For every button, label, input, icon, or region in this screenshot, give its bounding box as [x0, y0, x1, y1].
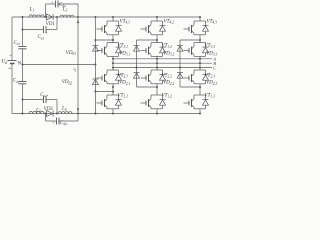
current arrow up	[77, 19, 79, 23]
transistor VT4.3	[199, 17, 201, 21]
wire leg1 output band	[112, 59, 114, 70]
node leg1 junctions	[112, 16, 114, 18]
diode VD1	[47, 14, 53, 20]
node top rail junctions	[21, 16, 23, 18]
transistor VT2.3	[199, 69, 201, 71]
wire output A	[113, 58, 212, 60]
svg-text:Cб1: Cб1	[38, 35, 45, 40]
node leg mid junctions	[112, 86, 114, 88]
svg-text:L1: L1	[29, 7, 35, 12]
wire output C	[113, 67, 212, 69]
capacitor Cd2	[19, 81, 27, 83]
transistor VT3.1	[112, 40, 114, 43]
transistor VT2.2	[156, 69, 158, 71]
svg-text:VDб2: VDб2	[62, 80, 72, 85]
wire clamp column x95	[94, 17, 96, 114]
transistor VT1.1	[112, 87, 114, 95]
svg-text:VD1: VD1	[46, 22, 56, 27]
svg-text:+: +	[46, 94, 48, 98]
node cap chain junctions	[21, 28, 23, 30]
transistor VT2.1	[112, 69, 114, 71]
wire snubber loop top	[45, 4, 47, 17]
svg-text:Cф2: Cф2	[60, 121, 68, 126]
node clamp mid x180.0	[179, 66, 181, 68]
svg-text:L4: L4	[61, 107, 67, 112]
source Ud	[8, 60, 17, 62]
capacitor Cb1	[23, 29, 44, 31]
diode clamp upper x180.0	[177, 45, 183, 47]
svg-text:Cф1: Cф1	[59, 3, 67, 8]
capacitor Cb2	[23, 99, 44, 101]
wire top rail	[12, 16, 200, 18]
transistor VT1.2	[156, 87, 158, 95]
svg-text:L3: L3	[35, 108, 41, 113]
transistor VT4.2	[156, 17, 158, 21]
wire neutral N rail	[23, 64, 96, 66]
wire leg2 output band	[156, 59, 158, 70]
wire bypass x78	[77, 17, 79, 114]
wire bottom rail	[12, 113, 200, 115]
svg-text:+: +	[45, 31, 47, 35]
node clamp mid x136.5	[135, 66, 137, 68]
inductor L2	[60, 15, 74, 17]
capacitor Cf1	[55, 1, 57, 8]
svg-text:VD2: VD2	[44, 107, 54, 112]
diode VDb2	[92, 78, 98, 80]
wire snubber loop bottom	[45, 114, 47, 122]
transistor VT1.3	[199, 87, 201, 95]
node x95 junctions	[94, 39, 96, 41]
node output junctions	[112, 58, 114, 60]
transistor VT3.3	[199, 40, 201, 43]
transistor VT3.2	[156, 40, 158, 43]
capacitor Cd1	[19, 46, 27, 48]
diode clamp lower x180.0	[177, 72, 183, 74]
wire x95 to leg1 upper	[95, 39, 113, 41]
diode VD2	[47, 110, 53, 116]
wire clamp column x136.5	[136, 40, 138, 87]
wire left edge	[11, 17, 13, 61]
svg-text:Cд1: Cд1	[14, 41, 21, 46]
svg-text:Cд2: Cд2	[13, 79, 20, 84]
wire clamp column x180.0	[179, 40, 181, 87]
diode clamp lower x136.5	[134, 72, 140, 74]
svg-text:+: +	[51, 1, 53, 5]
svg-text:C: C	[213, 65, 216, 70]
wire leg3 output band	[199, 59, 201, 70]
node leg2 junctions	[156, 16, 158, 18]
svg-text:N: N	[18, 60, 22, 66]
wire x95 to leg1 lower	[95, 91, 113, 93]
node bottom rail junctions	[21, 112, 23, 114]
inductor L4	[58, 112, 72, 114]
node leg3 junctions	[199, 16, 201, 18]
diode clamp upper x136.5	[134, 45, 140, 47]
transistor VT4.1	[112, 17, 114, 21]
inductor L3	[29, 111, 44, 113]
wire output B	[113, 62, 212, 64]
current arrow down	[77, 108, 79, 112]
wire capacitor chain	[22, 17, 24, 46]
diode VDb1	[92, 45, 98, 47]
inductor L1	[29, 15, 44, 17]
svg-text:VDб1: VDб1	[66, 51, 76, 56]
capacitor Cf2	[56, 118, 58, 125]
wire clamp bottom link x136.5	[137, 86, 158, 88]
wire clamp bottom link x180.0	[180, 86, 200, 88]
svg-text:+: +	[52, 121, 54, 125]
wire clamp top link x180.0	[180, 39, 200, 41]
wire clamp top link x136.5	[137, 39, 158, 41]
